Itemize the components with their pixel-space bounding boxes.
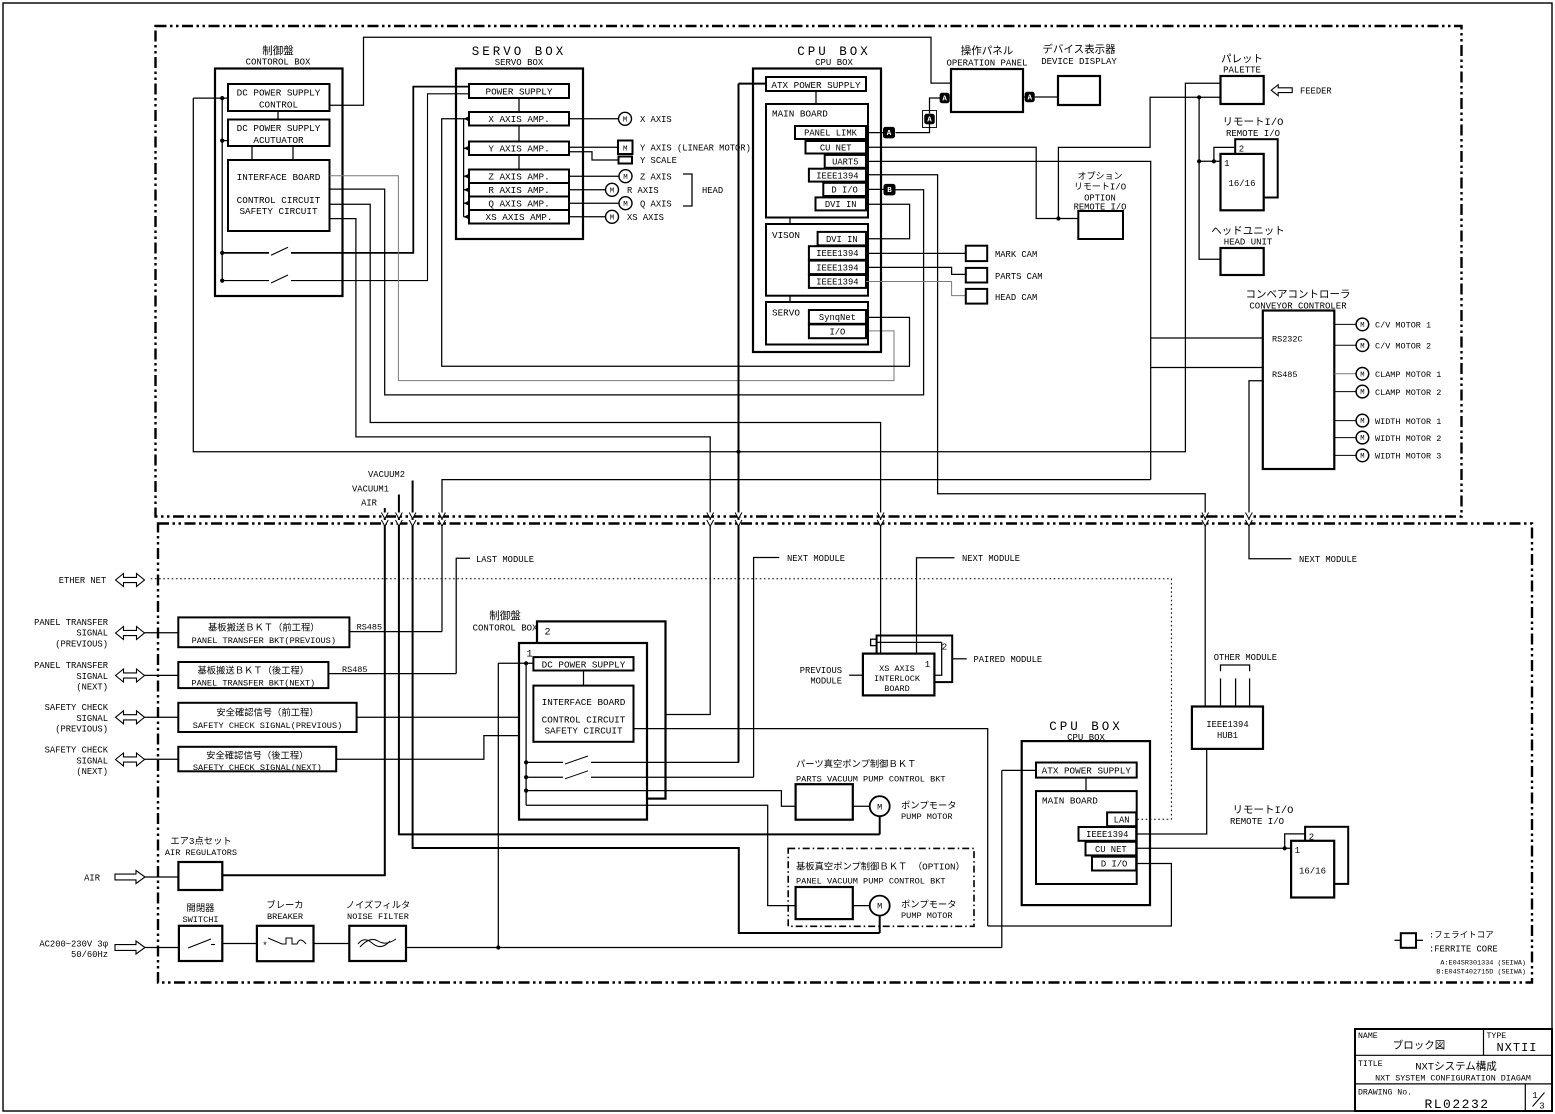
svg-text:ヘッドユニット: ヘッドユニット — [1211, 226, 1285, 238]
svg-text:PAIRED MODULE: PAIRED MODULE — [974, 655, 1043, 665]
svg-text:1: 1 — [925, 660, 930, 670]
svg-text:M: M — [1360, 389, 1364, 397]
svg-text:SAFETY CHECK: SAFETY CHECK — [45, 703, 109, 713]
svg-text:デバイス表示器: デバイス表示器 — [1042, 43, 1116, 57]
svg-text:2: 2 — [942, 643, 947, 653]
svg-text:DVI IN: DVI IN — [826, 235, 858, 245]
svg-text:NAME: NAME — [1358, 1032, 1378, 1041]
svg-text:B: B — [887, 187, 892, 195]
svg-text:IEEE1394: IEEE1394 — [816, 278, 858, 288]
svg-text:INTERFACE BOARD: INTERFACE BOARD — [542, 697, 626, 708]
svg-text:Z AXIS AMP.: Z AXIS AMP. — [488, 172, 549, 183]
svg-text:ATX POWER SUPPLY: ATX POWER SUPPLY — [1042, 765, 1132, 776]
svg-text:MAIN BOARD: MAIN BOARD — [1042, 796, 1098, 807]
svg-text:NXTII: NXTII — [1496, 1041, 1537, 1055]
svg-text:M: M — [623, 117, 628, 125]
svg-text:M: M — [877, 902, 882, 912]
svg-text:PARTS CAM: PARTS CAM — [995, 272, 1043, 282]
svg-text:HEAD UNIT: HEAD UNIT — [1224, 238, 1273, 248]
svg-text:PARTS VACUUM PUMP CONTROL BKT: PARTS VACUUM PUMP CONTROL BKT — [796, 775, 946, 785]
svg-text::FERRITE CORE: :FERRITE CORE — [1429, 945, 1498, 955]
svg-text:D I/O: D I/O — [1101, 860, 1127, 870]
svg-text:基板搬送ＢＫＴ（前工程）: 基板搬送ＢＫＴ（前工程） — [208, 622, 320, 634]
svg-text:VACUUM2: VACUUM2 — [368, 470, 405, 480]
svg-text:ポンプモータ: ポンプモータ — [901, 900, 957, 911]
svg-text:PANEL TRANSFER BKT(NEXT): PANEL TRANSFER BKT(NEXT) — [191, 679, 315, 689]
svg-text:SAFETY CHECK SIGNAL(PREVIOUS): SAFETY CHECK SIGNAL(PREVIOUS) — [193, 721, 343, 731]
svg-text:50/60Hz: 50/60Hz — [71, 950, 108, 960]
svg-text:制御盤: 制御盤 — [262, 44, 294, 58]
svg-text:XS AXIS: XS AXIS — [879, 664, 915, 674]
svg-text:D I/O: D I/O — [831, 186, 857, 196]
svg-text:1: 1 — [1224, 159, 1229, 169]
svg-text:Y AXIS (LINEAR MOTOR): Y AXIS (LINEAR MOTOR) — [640, 144, 751, 154]
svg-text:PALETTE: PALETTE — [1223, 66, 1261, 76]
svg-text:PREVIOUS: PREVIOUS — [800, 666, 842, 676]
svg-text:NEXT MODULE: NEXT MODULE — [1299, 555, 1357, 565]
svg-text:M: M — [1360, 343, 1364, 351]
svg-text:RS232C: RS232C — [1272, 335, 1303, 345]
svg-text:PANEL VACUUM PUMP CONTROL BKT: PANEL VACUUM PUMP CONTROL BKT — [796, 877, 946, 887]
svg-text:BREAKER: BREAKER — [267, 912, 303, 922]
svg-text:CU NET: CU NET — [820, 144, 852, 154]
svg-text:ブロック図: ブロック図 — [1393, 1039, 1446, 1053]
svg-text:Y AXIS AMP.: Y AXIS AMP. — [488, 144, 549, 155]
svg-text:NOISE FILTER: NOISE FILTER — [347, 912, 409, 922]
svg-text:REMOTE I/O: REMOTE I/O — [1230, 817, 1284, 827]
svg-text:OTHER MODULE: OTHER MODULE — [1214, 653, 1277, 663]
svg-text:SAFETY CHECK: SAFETY CHECK — [45, 746, 109, 756]
svg-text:ノイズフィルタ: ノイズフィルタ — [346, 899, 411, 911]
svg-text:CLAMP MOTOR 1: CLAMP MOTOR 1 — [1375, 370, 1441, 380]
svg-text:MAIN BOARD: MAIN BOARD — [772, 109, 828, 120]
svg-text:PANEL LIMK: PANEL LIMK — [804, 129, 858, 139]
svg-text:(NEXT): (NEXT) — [76, 683, 108, 693]
svg-text:SIGNAL: SIGNAL — [76, 629, 108, 639]
svg-text:PANEL TRANSFER BKT(PREVIOUS): PANEL TRANSFER BKT(PREVIOUS) — [192, 636, 336, 646]
svg-text:MODULE: MODULE — [810, 677, 842, 687]
svg-text:NXTシステム構成: NXTシステム構成 — [1415, 1060, 1497, 1074]
svg-text:NEXT MODULE: NEXT MODULE — [962, 554, 1020, 564]
svg-text:LAST MODULE: LAST MODULE — [476, 555, 534, 565]
svg-text:FEEDER: FEEDER — [1300, 87, 1332, 97]
svg-text:リモートI/O: リモートI/O — [1233, 805, 1294, 817]
svg-text:ポンプモータ: ポンプモータ — [901, 801, 957, 812]
svg-text:SAFETY CIRCUIT: SAFETY CIRCUIT — [544, 726, 623, 737]
svg-text:コンベアコントローラ: コンベアコントローラ — [1246, 289, 1351, 302]
svg-text:AIR: AIR — [361, 499, 378, 509]
svg-text:TITLE: TITLE — [1358, 1060, 1383, 1069]
svg-text:UART5: UART5 — [832, 158, 858, 168]
svg-text:OPERATION PANEL: OPERATION PANEL — [946, 59, 1027, 69]
svg-text:SIGNAL: SIGNAL — [76, 756, 108, 766]
svg-text:HUB1: HUB1 — [1217, 731, 1238, 741]
svg-text:SERVO BOX: SERVO BOX — [472, 45, 567, 59]
svg-text:Q AXIS: Q AXIS — [640, 200, 672, 210]
svg-text:M: M — [623, 174, 628, 182]
svg-text:ブレーカ: ブレーカ — [266, 899, 303, 911]
svg-text:IEEE1394: IEEE1394 — [816, 264, 858, 274]
svg-text:A:E04SR301334 (SEIWA): A:E04SR301334 (SEIWA) — [1440, 960, 1526, 968]
svg-text:VISON: VISON — [772, 230, 800, 241]
svg-text:CPU BOX: CPU BOX — [815, 58, 853, 68]
svg-text:操作パネル: 操作パネル — [961, 44, 1014, 58]
svg-text:RS485: RS485 — [1272, 370, 1298, 380]
svg-text:1: 1 — [1295, 846, 1300, 856]
svg-text:REMOTE I/O: REMOTE I/O — [1226, 129, 1280, 139]
svg-text:MARK CAM: MARK CAM — [995, 250, 1037, 260]
svg-text:Z AXIS: Z AXIS — [640, 173, 672, 183]
svg-text:基板搬送ＢＫＴ（後工程）: 基板搬送ＢＫＴ（後工程） — [198, 665, 310, 677]
svg-text:BOARD: BOARD — [884, 684, 910, 694]
svg-text:安全確認信号（後工程）: 安全確認信号（後工程） — [206, 749, 308, 761]
svg-text:SIGNAL: SIGNAL — [76, 714, 108, 724]
svg-text:A: A — [927, 117, 932, 125]
svg-text:HEAD CAM: HEAD CAM — [995, 293, 1037, 303]
svg-text:CONTROL: CONTROL — [259, 100, 298, 111]
svg-text:(NEXT): (NEXT) — [76, 767, 108, 777]
svg-text:開閉器: 開閉器 — [187, 903, 216, 914]
svg-text:Y SCALE: Y SCALE — [640, 156, 677, 166]
svg-text:C/V MOTOR 2: C/V MOTOR 2 — [1375, 342, 1431, 352]
svg-text:PANEL TRANSFER: PANEL TRANSFER — [34, 661, 109, 671]
svg-text:SIGNAL: SIGNAL — [76, 672, 108, 682]
svg-text:NEXT MODULE: NEXT MODULE — [787, 554, 845, 564]
svg-text:M: M — [1360, 453, 1364, 461]
svg-text:3: 3 — [1539, 1102, 1544, 1112]
svg-text:ETHER NET: ETHER NET — [59, 576, 107, 586]
svg-text:XS AXIS AMP.: XS AXIS AMP. — [486, 212, 553, 223]
svg-text:ATX POWER SUPPLY: ATX POWER SUPPLY — [771, 80, 861, 91]
svg-text:C/V MOTOR 1: C/V MOTOR 1 — [1375, 321, 1431, 331]
svg-text:CU NET: CU NET — [1095, 845, 1127, 855]
svg-text:リモートI/O: リモートI/O — [1074, 183, 1126, 193]
svg-text:M: M — [623, 201, 628, 209]
svg-text:2: 2 — [544, 628, 550, 639]
svg-text:(PREVIOUS): (PREVIOUS) — [55, 725, 108, 735]
svg-text::フェライトコア: :フェライトコア — [1429, 931, 1494, 941]
svg-text:SWITCHI: SWITCHI — [182, 915, 218, 925]
svg-text:R AXIS AMP.: R AXIS AMP. — [488, 185, 549, 196]
svg-text:CONTROL CIRCUIT: CONTROL CIRCUIT — [237, 195, 321, 206]
svg-text:B:E04ST402715D (SEIWA): B:E04ST402715D (SEIWA) — [1436, 969, 1526, 977]
svg-text:XS AXIS: XS AXIS — [627, 213, 664, 223]
svg-text:I/O: I/O — [829, 328, 845, 338]
svg-text:*: * — [262, 941, 267, 951]
svg-text:CLAMP MOTOR 2: CLAMP MOTOR 2 — [1375, 388, 1441, 398]
svg-text:LAN: LAN — [1114, 815, 1130, 825]
svg-text:M: M — [1360, 322, 1364, 330]
svg-text:M: M — [1360, 418, 1364, 426]
svg-text:WIDTH MOTOR 1: WIDTH MOTOR 1 — [1375, 417, 1441, 427]
svg-text:IEEE1394: IEEE1394 — [1206, 720, 1248, 730]
svg-text:PUMP MOTOR: PUMP MOTOR — [901, 812, 953, 822]
svg-text:DC POWER SUPPLY: DC POWER SUPPLY — [542, 659, 626, 670]
svg-text:INTERFACE BOARD: INTERFACE BOARD — [237, 172, 321, 183]
svg-text:パーツ真空ポンプ制御ＢＫＴ: パーツ真空ポンプ制御ＢＫＴ — [796, 758, 916, 770]
svg-text:TYPE: TYPE — [1487, 1032, 1507, 1041]
svg-text:M: M — [610, 188, 615, 196]
svg-text:HEAD: HEAD — [702, 186, 723, 196]
svg-text:CONTOROL BOX: CONTOROL BOX — [473, 624, 538, 634]
svg-text:PUMP MOTOR: PUMP MOTOR — [901, 911, 953, 921]
svg-text:IEEE1394: IEEE1394 — [1086, 830, 1128, 840]
svg-text:安全確認信号（前工程）: 安全確認信号（前工程） — [216, 707, 318, 719]
svg-text:PANEL TRANSFER: PANEL TRANSFER — [34, 618, 109, 628]
svg-text:RL02232: RL02232 — [1424, 1097, 1489, 1112]
svg-text:1: 1 — [1532, 1091, 1537, 1101]
svg-text:パレット: パレット — [1221, 53, 1263, 66]
svg-text:M: M — [623, 146, 628, 154]
svg-text:WIDTH MOTOR 3: WIDTH MOTOR 3 — [1375, 452, 1441, 462]
svg-text:M: M — [1360, 435, 1364, 443]
svg-text:INTERLOCK: INTERLOCK — [874, 674, 921, 684]
svg-text:A: A — [887, 130, 892, 138]
svg-text:制御盤: 制御盤 — [489, 609, 521, 623]
svg-text:X AXIS: X AXIS — [640, 115, 672, 125]
svg-text:16/16: 16/16 — [1299, 867, 1326, 877]
svg-text:CONTOROL BOX: CONTOROL BOX — [246, 58, 311, 68]
svg-text:CPU BOX: CPU BOX — [797, 45, 871, 59]
svg-text:(PREVIOUS): (PREVIOUS) — [55, 639, 108, 649]
svg-text:AIR REGULATORS: AIR REGULATORS — [165, 848, 237, 858]
svg-text:オプション: オプション — [1077, 171, 1122, 182]
svg-text:SERVO: SERVO — [772, 308, 800, 319]
svg-text:AC200~230V 3φ: AC200~230V 3φ — [39, 940, 108, 950]
svg-text:POWER SUPPLY: POWER SUPPLY — [486, 87, 553, 98]
svg-text:IEEE1394: IEEE1394 — [816, 171, 858, 181]
svg-text:SynqNet: SynqNet — [819, 313, 856, 323]
svg-text:DC POWER SUPPLY: DC POWER SUPPLY — [237, 88, 321, 99]
svg-text:DVI IN: DVI IN — [825, 200, 857, 210]
svg-text:NXT SYSTEM CONFIGURATION DIAGA: NXT SYSTEM CONFIGURATION DIAGAM — [1375, 1074, 1531, 1084]
svg-text:基板真空ポンプ制御ＢＫＴ （OPTION）: 基板真空ポンプ制御ＢＫＴ （OPTION） — [796, 861, 965, 873]
svg-text:DC POWER SUPPLY: DC POWER SUPPLY — [237, 123, 321, 134]
svg-text:ACUTUATOR: ACUTUATOR — [253, 135, 304, 146]
svg-text:SERVO BOX: SERVO BOX — [495, 58, 544, 68]
svg-text:DRAWING No.: DRAWING No. — [1358, 1089, 1412, 1098]
svg-text:IEEE1394: IEEE1394 — [816, 249, 858, 259]
svg-text:SAFETY CIRCUIT: SAFETY CIRCUIT — [239, 206, 318, 217]
svg-text:WIDTH MOTOR 2: WIDTH MOTOR 2 — [1375, 434, 1441, 444]
svg-text:A: A — [942, 96, 947, 104]
svg-text:A: A — [1027, 95, 1032, 103]
svg-text:SAFETY CHECK SIGNAL(NEXT): SAFETY CHECK SIGNAL(NEXT) — [193, 763, 322, 773]
svg-text:R AXIS: R AXIS — [627, 186, 659, 196]
svg-text:M: M — [877, 802, 882, 812]
svg-text:AIR: AIR — [84, 874, 101, 884]
svg-text:16/16: 16/16 — [1228, 179, 1255, 189]
svg-text:X AXIS AMP.: X AXIS AMP. — [488, 114, 549, 125]
svg-text:リモートI/O: リモートI/O — [1223, 117, 1284, 129]
svg-text:VACUUM1: VACUUM1 — [352, 485, 389, 495]
svg-text:CONTROL CIRCUIT: CONTROL CIRCUIT — [542, 715, 626, 726]
svg-text:Q AXIS AMP.: Q AXIS AMP. — [488, 199, 549, 210]
svg-text:M: M — [610, 215, 615, 223]
svg-text:エア3点セット: エア3点セット — [170, 836, 231, 847]
svg-text:DEVICE DISPLAY: DEVICE DISPLAY — [1041, 57, 1117, 67]
svg-text:1: 1 — [526, 650, 532, 661]
svg-text:M: M — [1360, 371, 1364, 379]
